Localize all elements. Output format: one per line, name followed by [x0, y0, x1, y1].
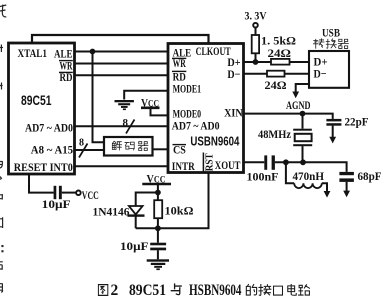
svg-text:D−: D−	[314, 69, 327, 81]
svg-text:AD7 ~ AD0: AD7 ~ AD0	[25, 122, 73, 134]
svg-text:89C51: 89C51	[21, 92, 52, 108]
svg-text:MODE0: MODE0	[173, 109, 202, 121]
svg-text:D+: D+	[227, 57, 240, 69]
svg-text:3. 3V: 3. 3V	[245, 11, 268, 23]
svg-text:24Ω: 24Ω	[265, 80, 287, 92]
svg-text:VCC: VCC	[147, 173, 166, 185]
svg-text:WR: WR	[173, 58, 187, 70]
svg-text:470nH: 470nH	[293, 171, 325, 183]
svg-text:XIN: XIN	[224, 107, 243, 119]
svg-text:48MHz: 48MHz	[258, 129, 291, 141]
svg-text:HSBN9604: HSBN9604	[189, 282, 242, 299]
svg-text:10kΩ: 10kΩ	[165, 206, 194, 218]
svg-text:1. 5kΩ: 1. 5kΩ	[261, 36, 296, 48]
svg-text:AD7 ~ AD0: AD7 ~ AD0	[172, 120, 220, 132]
svg-text:100nF: 100nF	[247, 171, 279, 183]
svg-text:MODE1: MODE1	[173, 83, 202, 95]
svg-text:AGND: AGND	[286, 100, 311, 112]
svg-text:10μF: 10μF	[120, 241, 149, 253]
svg-text:CS: CS	[173, 145, 186, 157]
svg-text:RESET INT0: RESET INT0	[14, 162, 73, 174]
svg-text:VCC: VCC	[82, 190, 99, 202]
svg-text:USBN9604: USBN9604	[190, 135, 239, 149]
svg-text:89C51: 89C51	[129, 282, 166, 299]
svg-text:2: 2	[111, 282, 119, 299]
svg-text:XTAL1: XTAL1	[18, 48, 48, 60]
svg-text:1N4146: 1N4146	[93, 207, 130, 219]
svg-text:10μF: 10μF	[42, 199, 71, 211]
svg-text:VCC: VCC	[141, 97, 159, 109]
svg-text:INTR: INTR	[172, 161, 196, 173]
svg-text:XOUT: XOUT	[215, 160, 241, 172]
svg-text:22pF: 22pF	[345, 116, 369, 128]
svg-text:D+: D+	[314, 56, 328, 68]
svg-text:ALE: ALE	[54, 48, 73, 60]
svg-text:8: 8	[79, 138, 84, 149]
svg-text:RD: RD	[60, 72, 73, 84]
svg-text:8: 8	[123, 117, 129, 129]
svg-text:CLKOUT: CLKOUT	[196, 46, 231, 58]
svg-text:WR: WR	[60, 60, 73, 72]
svg-text:USB: USB	[322, 28, 340, 40]
svg-text:24Ω: 24Ω	[268, 48, 292, 60]
svg-text:RD: RD	[173, 71, 186, 83]
svg-text:D−: D−	[227, 69, 240, 81]
svg-text:A8 ~ A15: A8 ~ A15	[31, 145, 74, 157]
svg-text:RST: RST	[205, 153, 216, 171]
svg-text:68pF: 68pF	[358, 171, 382, 183]
